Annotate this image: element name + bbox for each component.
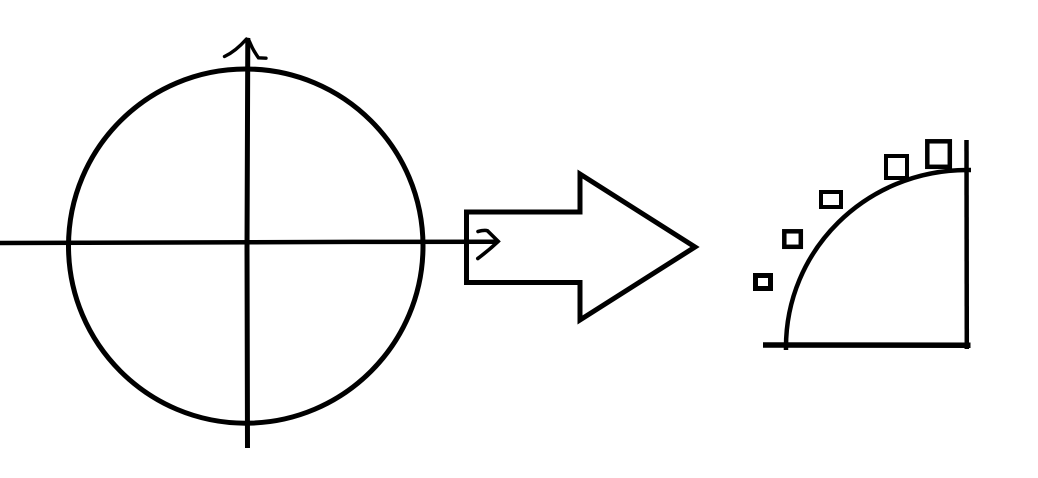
square 2 xyxy=(784,231,801,247)
square 3 xyxy=(821,192,841,207)
axis arrowhead top xyxy=(225,39,267,58)
vertical axis xyxy=(245,38,251,448)
right vertical axis xyxy=(964,140,969,349)
right horizontal axis xyxy=(763,342,971,348)
block arrow xyxy=(467,174,696,320)
circle xyxy=(69,69,424,423)
horizontal axis xyxy=(0,242,496,243)
axis arrowhead right xyxy=(478,230,498,258)
square 1 xyxy=(756,276,771,289)
square 5 xyxy=(927,141,950,167)
quarter arc xyxy=(786,170,971,350)
square 4 xyxy=(886,156,907,178)
